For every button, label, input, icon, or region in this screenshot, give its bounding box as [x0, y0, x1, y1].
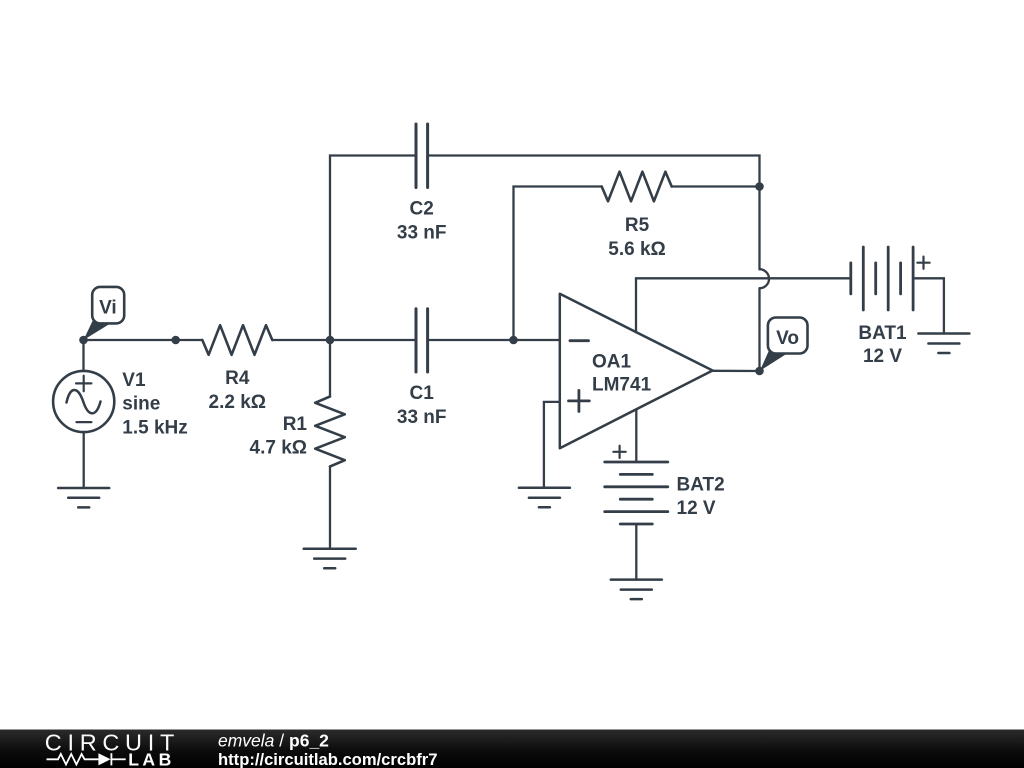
BAT1 plus sign [917, 257, 929, 269]
ground below V1 [58, 488, 109, 507]
logo resistor and diode glyph [47, 753, 126, 765]
wire node B to C1 [330, 339, 416, 341]
svg-text:emvela / p6_2: emvela / p6_2 [218, 730, 329, 750]
svg-text:http://circuitlab.com/crcbfr7: http://circuitlab.com/crcbfr7 [218, 750, 437, 768]
wire R4 to node B [272, 339, 330, 341]
flag Vi [84, 287, 125, 340]
svg-text:R4: R4 [225, 368, 250, 389]
wire main input node to R4 [84, 339, 203, 341]
svg-text:R1: R1 [283, 414, 308, 435]
resistor R5 [602, 172, 672, 202]
svg-text:12 V: 12 V [677, 498, 716, 519]
wire op-amp bottom power pin to BAT2 [635, 410, 637, 463]
svg-text:33 nF: 33 nF [397, 222, 447, 243]
svg-text:C1: C1 [410, 383, 435, 404]
ground below op-amp plus input [519, 488, 570, 508]
wire op-amp top power pin [635, 278, 637, 332]
svg-text:1.5 kHz: 1.5 kHz [122, 417, 187, 438]
wire node D down with crossover hop to output [760, 187, 770, 372]
svg-text:BAT1: BAT1 [858, 323, 907, 344]
BAT2 plus sign [613, 446, 625, 458]
svg-text:sine: sine [122, 394, 160, 415]
node Vi junction [79, 336, 88, 345]
wire V1 bottom to ground [83, 432, 85, 488]
svg-text:R5: R5 [625, 215, 650, 236]
wire positive supply rail to BAT1 [636, 277, 851, 279]
capacitor C1 [416, 309, 428, 372]
battery BAT1 [851, 247, 913, 310]
capacitor C2 [416, 124, 428, 188]
node output junction [755, 367, 764, 376]
svg-text:LAB: LAB [128, 749, 175, 768]
svg-text:4.7 kΩ: 4.7 kΩ [250, 438, 308, 459]
ground right of BAT1 [918, 334, 969, 354]
voltage source V1 [53, 371, 114, 432]
resistor R1 [315, 397, 345, 467]
wire op-amp output [713, 370, 760, 373]
op-amp plus symbol [569, 390, 590, 411]
wire BAT2 to ground [635, 524, 637, 580]
wire node B down to R1 [329, 340, 331, 397]
wire C2 to right corner [428, 156, 760, 187]
junction dots [79, 182, 764, 375]
svg-text:LM741: LM741 [592, 374, 652, 395]
node C junction [509, 336, 518, 345]
ground below BAT2 [611, 580, 662, 600]
wire R1 to ground [329, 467, 331, 549]
op-amp minus symbol [570, 339, 589, 342]
svg-text:33 nF: 33 nF [397, 407, 447, 428]
wire non-inverting input to ground [544, 402, 560, 488]
node V1 terminal [171, 336, 180, 345]
svg-text:Vo: Vo [776, 328, 799, 349]
wire node B up to C2 branch [330, 156, 416, 341]
ground below R1 [304, 549, 356, 568]
node B junction [326, 336, 335, 345]
resistor R4 [202, 325, 272, 355]
svg-text:V1: V1 [122, 370, 146, 391]
svg-text:Vi: Vi [99, 298, 117, 319]
wire BAT1 to ground [913, 278, 944, 333]
wire V1 top stub [82, 340, 84, 371]
svg-text:BAT2: BAT2 [677, 475, 725, 496]
svg-text:12 V: 12 V [863, 346, 902, 367]
flag Vo [760, 318, 808, 371]
battery BAT2 [605, 462, 668, 524]
svg-text:2.2 kΩ: 2.2 kΩ [209, 392, 267, 413]
wire R5 to node D [672, 185, 760, 187]
svg-text:C2: C2 [410, 199, 434, 220]
svg-text:5.6 kΩ: 5.6 kΩ [608, 239, 666, 260]
svg-text:OA1: OA1 [592, 352, 632, 373]
wire C1 to op-amp inverting input [428, 339, 560, 341]
node D junction [755, 182, 764, 191]
footer bar [0, 730, 1024, 768]
wire node C up to R5 [514, 187, 602, 341]
op-amp OA1 [560, 294, 713, 448]
